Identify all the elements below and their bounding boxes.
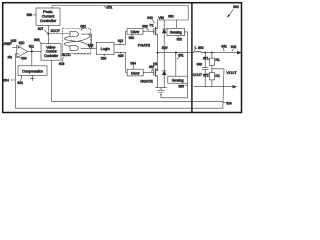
label 641 <box>221 44 227 51</box>
label 651 <box>177 54 184 60</box>
wire VIN supply rail (top) <box>52 6 188 21</box>
svg-text:604: 604 <box>226 101 232 105</box>
svg-text:672: 672 <box>203 73 209 77</box>
node SW rail <box>156 46 193 53</box>
svg-text:600: 600 <box>233 5 239 9</box>
label 671 <box>203 57 209 61</box>
label 695 <box>178 84 187 88</box>
wire sensing1 output down right side <box>185 32 188 76</box>
label 636 <box>34 38 41 43</box>
transistor N1 <box>153 62 157 77</box>
wire latch outputs to logic <box>81 34 96 48</box>
svg-text:646: 646 <box>197 62 203 66</box>
label COUT <box>193 73 203 77</box>
sensing block 650 high side <box>167 28 185 35</box>
wire N1 drain to SW <box>157 53 159 71</box>
label 650 <box>177 36 183 42</box>
signal SLCD <box>62 53 91 57</box>
svg-text:Controller: Controller <box>40 18 57 23</box>
svg-text:607: 607 <box>38 27 44 31</box>
svg-text:R2: R2 <box>215 74 219 78</box>
ground under compensation <box>30 75 34 80</box>
wire FB from op-amp to bottom rail <box>16 54 223 108</box>
svg-text:P1: P1 <box>150 23 154 27</box>
peak-current controller U630 <box>36 8 60 25</box>
svg-text:641: 641 <box>221 44 227 48</box>
svg-text:COUT: COUT <box>193 73 203 77</box>
wire peak controller to valley controller <box>47 25 49 43</box>
label 672 <box>203 73 209 77</box>
svg-text:N1: N1 <box>153 62 157 66</box>
svg-text:604: 604 <box>3 78 9 82</box>
node 611 output of op-amp <box>28 44 42 52</box>
driver U634 low side <box>127 69 143 76</box>
gate G2 <box>70 46 79 51</box>
net PGATE <box>138 44 151 48</box>
op-amp U610 error amplifier <box>17 45 28 57</box>
svg-text:Sensing: Sensing <box>172 78 184 82</box>
svg-text:608: 608 <box>59 62 65 66</box>
label 621 <box>118 39 124 44</box>
label 602 <box>17 75 23 85</box>
resistor R2 <box>209 73 219 87</box>
label 604 feedback <box>223 101 232 105</box>
label 646 <box>197 62 203 66</box>
IC boundary divider line <box>191 3 193 112</box>
svg-text:Controller: Controller <box>44 54 59 58</box>
svg-text:602: 602 <box>17 81 23 85</box>
wire P1 drain to VIN rail <box>157 20 159 29</box>
svg-text:Driver: Driver <box>131 30 140 34</box>
wire driver to N1 gate <box>143 71 154 73</box>
label 690 <box>168 15 174 19</box>
label 633 <box>142 25 149 31</box>
label 630 driver <box>129 34 135 40</box>
label 634 <box>130 61 136 69</box>
wire 611 node to compensation <box>31 51 33 65</box>
svg-text:640: 640 <box>147 16 153 20</box>
svg-text:650: 650 <box>177 37 183 41</box>
label 605 <box>10 39 17 45</box>
wire driver to P1 gate <box>143 30 154 32</box>
gate G1 <box>70 32 79 37</box>
diode D1 body <box>162 20 166 53</box>
wire feedback tap from divider <box>212 69 224 108</box>
wire N1 source to ground <box>157 76 159 88</box>
svg-text:635: 635 <box>118 54 124 58</box>
svg-text:636: 636 <box>34 38 40 42</box>
label 620 <box>101 55 107 61</box>
svg-text:SW: SW <box>162 46 168 50</box>
svg-text:695: 695 <box>178 84 184 88</box>
wire SOCP dashed to latch <box>50 33 70 35</box>
label 608 <box>59 57 65 66</box>
net VIN <box>158 16 164 20</box>
wire cross-couple top-to-bottom <box>64 34 90 46</box>
label 604 under op-amp <box>17 56 27 60</box>
label 640 <box>147 16 154 23</box>
compensation network 602 <box>18 66 47 76</box>
svg-text:630: 630 <box>27 13 33 17</box>
svg-text:650: 650 <box>198 46 204 50</box>
wire P1 source to SW <box>157 35 159 53</box>
label 610 <box>19 41 25 46</box>
svg-text:SLCD: SLCD <box>62 53 71 57</box>
logic block 620 <box>96 42 114 54</box>
svg-text:Compensation: Compensation <box>22 69 43 73</box>
wire logic to low-side driver <box>114 52 127 72</box>
label 601 for VIN rail <box>104 6 112 10</box>
capacitor COUT <box>202 52 208 87</box>
input FB <box>8 54 17 60</box>
wire SW to sensing2 <box>175 53 177 77</box>
label 623 <box>88 43 94 48</box>
wire sensing2 return to ground <box>161 83 187 98</box>
label 635 <box>118 53 124 58</box>
node SOCP <box>47 29 60 35</box>
label 604 at left edge <box>3 78 14 82</box>
resistor R1 <box>209 52 219 73</box>
input VREF <box>3 42 17 47</box>
label 607 <box>38 27 48 33</box>
svg-text:604: 604 <box>21 57 27 61</box>
svg-text:R1: R1 <box>215 58 219 62</box>
diode D2 body <box>162 53 166 88</box>
svg-text:SOCP: SOCP <box>51 29 61 33</box>
net VOUT <box>226 71 237 75</box>
wire VOUT rail with arrow <box>201 51 240 54</box>
transistor P1 <box>150 23 158 35</box>
latch dashed box 622 <box>63 28 91 53</box>
label 642 <box>231 45 237 51</box>
wire valley controller to feedback tap <box>52 60 223 101</box>
driver U630 high side <box>127 28 143 34</box>
svg-text:VIN: VIN <box>158 16 164 20</box>
svg-text:630: 630 <box>129 36 135 40</box>
sensing block 695 low side <box>168 76 188 83</box>
net NGATE <box>140 80 153 84</box>
svg-text:620: 620 <box>101 56 107 60</box>
svg-text:VOUT: VOUT <box>226 71 237 75</box>
svg-text:Logic: Logic <box>101 46 110 51</box>
svg-text:FB: FB <box>8 55 13 59</box>
figure border frame <box>3 3 242 113</box>
ground power symbol <box>156 88 167 95</box>
wire VIN rail to sensing1 <box>176 20 178 28</box>
inductor L <box>194 51 202 52</box>
label 622 <box>80 24 86 30</box>
label 630 <box>27 13 36 17</box>
svg-text:NGATE: NGATE <box>140 80 153 84</box>
svg-text:633: 633 <box>142 25 148 29</box>
wire cross-couple bottom-to-top <box>64 36 90 48</box>
svg-text:601: 601 <box>107 6 113 10</box>
svg-text:690: 690 <box>168 15 174 19</box>
wire logic to high-side driver <box>114 31 127 44</box>
wire ground rail with arrow <box>194 85 237 88</box>
svg-text:Driver: Driver <box>131 71 140 75</box>
valley-current controller U636 <box>41 44 61 61</box>
svg-text:PGATE: PGATE <box>138 44 151 48</box>
label 637 <box>149 65 155 71</box>
svg-text:Sensing: Sensing <box>170 31 182 35</box>
figure reference 600 with arrow <box>228 5 239 17</box>
label L 650 <box>195 45 204 50</box>
